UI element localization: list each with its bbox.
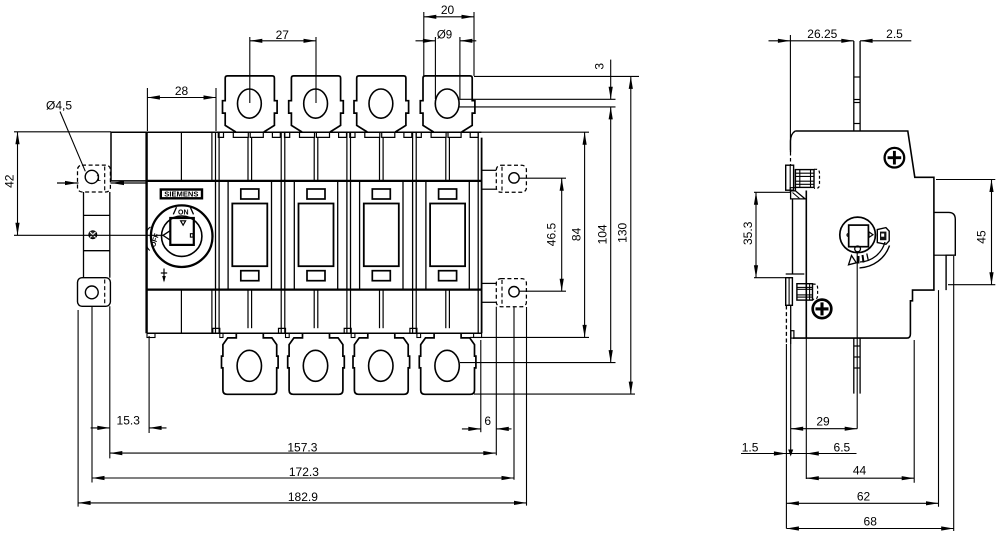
top-left mounting bracket (dashed) (78, 165, 111, 192)
pole module 3 main fuse window (364, 204, 399, 267)
pole module 3 bottom small window (372, 271, 390, 281)
side view: top DIN terminal clamp body (786, 165, 794, 190)
side view: actuator shaft top (853, 41, 855, 131)
front view: body left extension block (110, 132, 112, 181)
front view: body bottom edge (147, 332, 482, 334)
dimension 84 (right, body height) (482, 131, 589, 133)
rotary handle knob right notch (190, 234, 193, 237)
front view: upper band handle-module internal verticals (180, 132, 182, 181)
bottom terminal tab 3 hole (369, 350, 393, 381)
svg-text:26.25: 26.25 (807, 27, 837, 41)
side view: top clamp cage (dashed) (814, 169, 820, 188)
rotary handle knob left pointer triangle (163, 231, 170, 241)
dimension 46.5 (right, bracket pitch) (519, 177, 566, 179)
pole module 1 inner walls (227, 181, 229, 290)
bottom-right bracket hole (509, 287, 519, 297)
dimension 2.5 (side top shaft) (860, 40, 911, 42)
front view: main body top edge (111, 131, 482, 133)
svg-text:Ø4,5: Ø4,5 (46, 99, 72, 113)
bottom-left bracket hole (85, 286, 98, 299)
svg-text:Ø9: Ø9 (437, 29, 452, 41)
SIEMENS label plate (161, 190, 202, 199)
top terminal tab 1 hole (238, 89, 262, 118)
svg-text:68: 68 (864, 514, 878, 528)
rotary handle knob (170, 218, 194, 245)
svg-text:35.3: 35.3 (741, 221, 755, 245)
svg-text:1: 1 (96, 173, 101, 183)
svg-text:182.9: 182.9 (288, 490, 318, 504)
pole module 4 main fuse window (430, 204, 465, 267)
dimension 42 (left) (14, 131, 111, 133)
front view: bottom edge boundary raised notches (213, 328, 220, 333)
bottom terminal tab 4 hole (435, 350, 459, 381)
dimension 68 (side bottom) (953, 256, 955, 531)
front view: upper band module divider verticals (215, 132, 217, 181)
dimension 29 (side bottom) (790, 344, 792, 455)
pole module 4 top small window (439, 189, 457, 199)
top-right bracket slot line (dashed) (501, 167, 503, 191)
svg-text:157.3: 157.3 (287, 440, 317, 454)
front view: lower band module divider verticals (215, 290, 217, 334)
front view: left strip pin with cross (89, 231, 97, 239)
side view: lower shaft (853, 338, 855, 394)
side view: arc band end wedge (849, 256, 857, 265)
top terminal tab 1 (223, 76, 278, 132)
side view: DIN flange edge lines (785, 306, 787, 345)
side view: phillips screw bottom (813, 300, 832, 319)
svg-text:29: 29 (816, 414, 830, 428)
svg-text:44: 44 (853, 463, 867, 477)
top terminal tab 3 hole (369, 89, 393, 118)
top terminal tab 2 (289, 76, 344, 132)
dimension 1.5 (side bottom) (785, 344, 787, 529)
dimension 3 (terminal thickness) (610, 60, 612, 100)
bottom terminal tab 1 (222, 333, 279, 394)
front view: body right edge double line (477, 132, 479, 333)
dimension 130 (right) (474, 75, 639, 77)
pole module 4 inner walls (425, 181, 427, 290)
side view: body outline (793, 131, 934, 338)
pole module 2 inner walls (293, 181, 295, 290)
svg-text:SIEMENS: SIEMENS (164, 190, 198, 199)
svg-text:ON: ON (178, 210, 189, 217)
svg-text:62: 62 (857, 490, 871, 504)
bracket pointer arrow right (111, 182, 147, 184)
top terminal tab 2 hole (304, 89, 328, 118)
top-right bracket hole (509, 173, 519, 183)
dimension 6 (bottom right) (480, 340, 482, 432)
svg-text:6.5: 6.5 (834, 441, 851, 455)
terminal thickness reference lines (3mm) (460, 98, 616, 100)
dimension 6.5 (side bottom) (805, 338, 807, 479)
top terminal tab 4 hole (435, 89, 459, 118)
bottom-left mounting bracket (78, 278, 111, 307)
svg-text:130: 130 (616, 222, 630, 242)
svg-text:45: 45 (974, 230, 988, 244)
dimension 20 (top, tab width) (423, 12, 425, 76)
pole module 1 top small window (241, 189, 259, 199)
bottom terminal tab 1 hole (237, 350, 261, 381)
side view: left recessed wall (792, 199, 794, 274)
side view: bottom rail foot (791, 331, 794, 338)
dimension 28 (handle module width) (146, 88, 148, 131)
svg-text:27: 27 (276, 28, 290, 42)
front view: central band module boundary verticals (215, 181, 217, 290)
handle padlock symbol below (163, 269, 165, 282)
side view: phillips screw top (885, 148, 905, 168)
pole module 2 top small window (307, 189, 325, 199)
side view: knob left tick (847, 233, 849, 235)
rotary handle knob pointer (181, 221, 186, 225)
bottom terminal tab 2 (288, 333, 345, 394)
dimension 62 (side bottom) (938, 290, 940, 507)
bottom-right bracket slot line (dashed) (501, 280, 503, 305)
rotary handle outer circle (151, 205, 213, 267)
side view: arc band tick marks (858, 256, 860, 264)
side view: knob small circle (855, 246, 861, 252)
svg-text:2.5: 2.5 (886, 27, 903, 41)
front view: top edge comb teeth (218, 132, 223, 137)
svg-text:3: 3 (593, 63, 607, 70)
side view: bottom clamp cage (dashed) (813, 284, 818, 299)
front view: body left edge (145, 132, 147, 333)
rotary handle inner circle (162, 216, 202, 256)
side view: knob right pointer (869, 232, 873, 238)
bottom-right mounting bracket (dashed) (496, 279, 526, 307)
dimension 35.3 (side left) (754, 191, 791, 193)
pole module 3 top small window (372, 189, 390, 199)
dimension 104 (right) (610, 107, 612, 363)
front view: central band top line (147, 180, 482, 182)
svg-text:46.5: 46.5 (545, 222, 559, 246)
dimension diam 9 (top, hole) (434, 37, 436, 99)
dimension 26.25 (side top) (789, 35, 791, 150)
front view: central band bottom line (147, 289, 482, 291)
svg-text:42: 42 (3, 174, 17, 188)
side view: bottom DIN terminal clamp body (786, 278, 793, 306)
bottom-left bracket slot line (dashed) (104, 280, 106, 305)
pole module 2 main fuse window (299, 204, 334, 267)
svg-text:28: 28 (175, 84, 189, 98)
pole module 1 main fuse window (232, 204, 267, 267)
pole module 4 bottom small window (439, 271, 457, 281)
dimension 44 (side bottom) (913, 340, 915, 483)
pole module 3 inner walls (359, 181, 361, 290)
bottom-right bracket connector lines (482, 282, 497, 284)
svg-text:172.3: 172.3 (289, 465, 319, 479)
top-right mounting bracket (dashed) (496, 165, 526, 192)
side view: handle rotation arc band (860, 246, 890, 268)
side view: handle centre line (856, 252, 858, 429)
front view: left mounting strip (83, 192, 85, 278)
side view: top-left corner dashed edge (790, 152, 792, 165)
side view: right side bump (934, 212, 955, 290)
top terminal tab 4 (420, 76, 475, 132)
bottom terminal tab 2 hole (303, 350, 327, 381)
bracket pointer arrow left (57, 182, 79, 184)
pole module 1 bottom small window (241, 271, 259, 281)
svg-text:84: 84 (569, 227, 583, 241)
side view: top rail hook (790, 188, 795, 191)
side view: body main left wall (805, 191, 807, 339)
bottom terminal tab 3 (353, 333, 410, 394)
side view: handle knob square (849, 225, 869, 247)
bottom terminal tab 4 (419, 333, 476, 394)
top-left bracket slot line (dashed) (104, 167, 106, 191)
svg-text:6: 6 (484, 414, 491, 428)
svg-text:104: 104 (596, 224, 610, 244)
side view: bottom clamp screw (797, 284, 813, 300)
svg-text:20: 20 (441, 3, 455, 17)
dimension 172.3 (bottom) (91, 306, 93, 482)
dimension 15.3 (bottom left) (109, 306, 111, 458)
dimension 45 (side right) (936, 179, 995, 181)
dimension 182.9 (bottom) (77, 310, 79, 507)
svg-text:1.5: 1.5 (742, 441, 759, 455)
top-right bracket connector lines (482, 169, 497, 171)
front view: bottom feet strips (147, 333, 155, 337)
side view: handle knob circle (840, 217, 876, 253)
front view: lower band handle-module internal verticals (180, 290, 182, 334)
side view: ON flag (877, 228, 889, 245)
svg-text:15.3: 15.3 (117, 413, 141, 427)
side view: top clamp screw (795, 170, 814, 188)
dimension 157.3 (bottom) (110, 452, 496, 454)
top-left bracket hole (85, 170, 98, 183)
top terminal tab 3 (354, 76, 409, 132)
pole module 2 bottom small window (307, 271, 325, 281)
dimension 27 (top, terminal pitch) (249, 37, 251, 103)
